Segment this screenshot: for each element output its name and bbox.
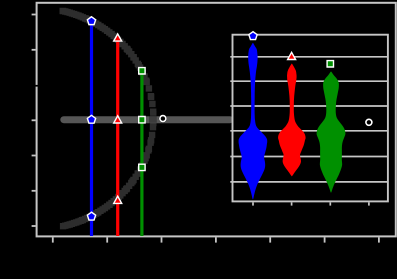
gray horizontal line (64, 116, 230, 123)
red vertical line (116, 39, 119, 236)
blue violin (239, 43, 268, 200)
blue pentagon markers (87, 17, 95, 220)
red violin (278, 64, 306, 177)
open circle marker on gray line (159, 115, 167, 123)
green vertical line (140, 70, 143, 236)
inset blue pentagon marker (249, 32, 257, 40)
dark dotted ellipse arc curve (60, 8, 157, 230)
main axes frame (37, 3, 396, 237)
green violin (317, 71, 346, 192)
y ticks (32, 15, 36, 227)
x ticks (53, 237, 379, 242)
black notch line over left spine (31, 85, 45, 87)
inset open circle marker (365, 118, 373, 126)
apex dot shadow on line (149, 115, 157, 122)
green square markers (139, 68, 145, 171)
red triangle markers (114, 34, 122, 204)
inset border (233, 35, 388, 202)
inset red triangle marker (288, 52, 296, 59)
blue vertical line (90, 21, 93, 236)
inset background (233, 35, 388, 202)
inset bottom ticks (253, 202, 369, 205)
inset gridlines (230, 57, 388, 182)
inset green square marker (327, 61, 333, 67)
